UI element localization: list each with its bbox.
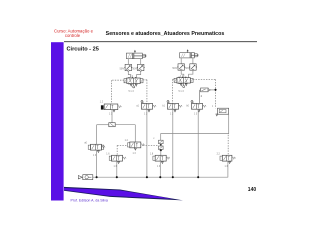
svg-text:50%: 50% (185, 68, 190, 70)
svg-text:controle: controle (65, 33, 81, 38)
svg-text:50%: 50% (172, 68, 177, 70)
svg-text:50%: 50% (132, 68, 137, 70)
svg-text:5 1 3: 5 1 3 (179, 91, 185, 93)
svg-text:140: 140 (248, 187, 257, 193)
svg-text:50%: 50% (120, 68, 125, 70)
svg-text:Sensores e atuadores_Atuadores: Sensores e atuadores_Atuadores Pneumatic… (106, 31, 225, 37)
svg-text:Prof. Edilson A. da Silva: Prof. Edilson A. da Silva (71, 199, 108, 203)
svg-text:Circuito - 25: Circuito - 25 (67, 46, 99, 52)
svg-text:5 1 3: 5 1 3 (129, 91, 135, 93)
